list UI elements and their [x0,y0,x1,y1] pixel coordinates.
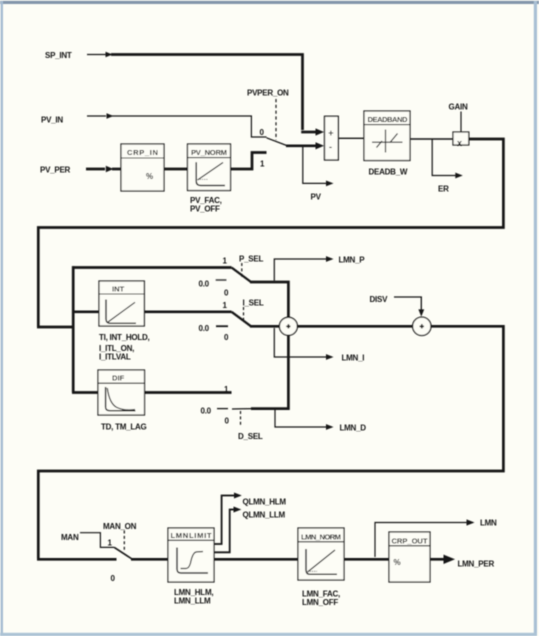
wire feedback join to trunk [37,326,73,329]
node LMN_D label [340,424,367,433]
graph INT ramp [108,302,135,322]
wire MAN_ON blade [114,547,132,559]
svg-text:QLMN_HLM: QLMN_HLM [243,498,287,507]
border frame right [534,1,537,636]
wire PVPER_ON dashed [275,99,277,140]
svg-text:0.0: 0.0 [201,407,212,416]
summer circle 2 [413,317,431,335]
svg-text:LMNLIMIT: LMNLIMIT [171,531,212,540]
svg-text:LMN_PER: LMN_PER [458,560,495,569]
wire GAIN down [460,112,462,133]
arrow into plus input [316,128,325,135]
wire MAN input [80,533,114,548]
wire I_SEL dashed [243,307,245,321]
svg-text:MAN: MAN [61,533,79,542]
node QLMN_HLM label [243,498,287,507]
svg-text:LMN_I: LMN_I [342,354,365,363]
svg-text:x: x [457,138,462,148]
wire circle2 out right down feedback to manual switch [38,326,503,558]
svg-text:DEADB_W: DEADB_W [369,168,408,177]
node PVPER_ON label [247,89,289,98]
svg-text:PV_IN: PV_IN [41,116,63,125]
node DISV label [370,295,389,304]
wire QLMN_LLM [214,510,235,553]
node PV_IN label [41,116,63,125]
graph PV_NORM axes [196,162,225,185]
svg-text:0.0: 0.0 [199,324,210,333]
svg-text:LMN: LMN [480,519,497,528]
graph LMN_NORM ramp [308,550,336,572]
wire switch out to minus bold [286,144,317,147]
wire SP_INT into plus [301,131,317,134]
arrow PV_PER [106,166,114,172]
wire QLMN_HLM [214,496,236,545]
graph LMNLIMIT curve [181,552,204,569]
svg-text:CRP_OUT: CRP_OUT [392,537,428,546]
block LMN_NORM [298,528,344,580]
arrow QLMN_LLM [234,507,242,513]
wire P out bold [250,282,288,318]
node LMN_P label [339,256,366,265]
wire DEADBAND to X box [410,138,453,140]
wire LMN_I takeoff [274,328,327,357]
wire PVPER switch blade [267,138,288,146]
border frame left [1,1,3,635]
node GAIN label [449,103,468,112]
wire D_SEL blade [232,408,252,410]
arrow ER [455,173,463,179]
block DEADBAND [364,111,410,161]
node LMN_OFF label [302,598,338,607]
wire D_SEL zero dash [217,408,228,410]
arrow QLMN_HLM [234,493,242,499]
wire PV_PER bold [86,168,105,171]
svg-text:+: + [328,128,333,138]
arrow PV_IN [107,113,114,118]
wire DISV [394,297,421,310]
svg-text:LMN_P: LMN_P [339,256,366,265]
wire P_SEL blade [232,268,252,283]
block LMNLIMIT [168,528,214,582]
wire LMNLIMIT to LMN_NORM [214,558,298,561]
wire PV_PER into CRP_IN [112,168,121,171]
wire summer out [338,137,364,139]
arrow PV [326,181,334,187]
svg-text:GAIN: GAIN [449,103,468,112]
node PV_OFF label [190,205,220,214]
node 1 label PVPER switch [260,160,265,169]
svg-text:%: % [394,558,401,567]
node QLMN_LLM label [243,511,286,520]
svg-text:D_SEL: D_SEL [238,432,263,441]
node MAN label [61,533,79,542]
wire D out bold and up to circle1 [251,335,288,409]
node TD TM_LAG label [101,423,147,432]
wire INT input [72,310,99,313]
svg-text:P_SEL: P_SEL [239,255,263,264]
svg-text:I_ITLVAL: I_ITLVAL [99,353,131,362]
svg-text:PV_PER: PV_PER [40,166,71,175]
node 0 label MAN_ON [111,574,116,583]
svg-text:PVPER_ON: PVPER_ON [247,89,289,98]
node I_SEL label [243,299,264,308]
block CRP_IN [121,144,164,191]
node D_SEL label [238,432,263,441]
wire auto path into MAN_ON 0 contact [37,558,117,561]
wire trunk vertical [72,266,75,392]
svg-text:DEADBAND: DEADBAND [368,115,409,124]
node PV label [311,193,322,202]
arrow LMN_D [326,424,334,430]
node 0 label I_SEL [224,333,229,342]
border frame bottom [0,633,537,636]
svg-text:0.0: 0.0 [199,280,210,289]
block CRP_OUT [389,532,430,582]
svg-text:DISV: DISV [370,295,389,304]
node LMN_I label [342,354,365,363]
svg-text:PV: PV [311,193,322,202]
wire CRP_OUT out bold [430,558,445,561]
node 0 label D_SEL [225,417,230,426]
arrow DISV down [418,309,424,316]
node P_SEL label [239,255,263,264]
node ER label [438,185,449,194]
wire LMN_NORM to CRP_OUT [344,558,389,561]
block summer rect [325,116,339,160]
node 0.0 label I_SEL [199,324,210,333]
block INT [99,281,144,326]
node PV_FAC label [190,196,222,205]
svg-text:TI, INT_HOLD,: TI, INT_HOLD, [99,333,150,342]
wire X box to right and down, feedback to left [38,139,503,327]
wire I_SEL zero dash [216,325,228,327]
node 1 label I_SEL [223,301,228,310]
graph DEADBAND curve [377,134,398,148]
node 0 label PVPER switch [260,128,265,137]
graph PV_NORM ramp [198,163,224,181]
wire CRP_IN to PV_NORM bold [164,168,188,171]
node LMN_HLM label [174,588,213,597]
graph LMN_NORM dotted [308,570,318,572]
arrow LMN [467,519,475,525]
node DEADB_W label [369,168,408,177]
wire INT out to I_SEL [144,310,231,313]
wire DIF input [72,391,98,394]
wire SP_INT input thin [87,54,106,56]
node I_ITLVAL label [99,353,131,362]
wire DIF out to D_SEL [145,391,232,394]
svg-text:PV_OFF: PV_OFF [190,205,220,214]
graph DIF decay [107,388,135,410]
wire P_SEL zero dash [216,279,227,281]
wire LMN_D takeoff [275,410,327,427]
arrow LMN_P [326,256,334,262]
node 1 label P_SEL [223,257,228,266]
svg-text:QLMN_LLM: QLMN_LLM [243,511,286,520]
wire I out bold [250,325,280,328]
node TI INT_HOLD label [99,333,150,342]
wire LMN_P takeoff [274,259,327,281]
wire SP_INT bold to corner and down to summer [111,55,303,131]
svg-text:INT: INT [112,285,125,294]
node 1 label D_SEL [224,385,229,394]
block PV_NORM [188,144,231,191]
graph DIF axes [106,387,136,411]
svg-text:I_SEL: I_SEL [243,299,264,308]
block gain X [453,132,469,145]
graph LMNLIMIT axes [177,548,208,574]
node LMN_PER label [458,560,495,569]
svg-text:TD, TM_LAG: TD, TM_LAG [101,423,147,432]
arrow SP_INT [106,52,113,57]
node 0.0 label P_SEL [199,280,210,289]
wire P branch [72,266,232,269]
wire ER takeoff [432,139,456,176]
node LMN_FAC label [302,590,340,599]
wire PV_IN to switch 0 contact [112,116,267,137]
wire P_SEL dashed [241,263,243,277]
wire circle1 to circle2 [297,325,413,328]
wire LMN takeoff [375,523,467,558]
node LMN label [480,519,497,528]
node 0 label P_SEL [224,289,229,298]
graph DEADBAND axes [372,141,403,143]
node 0.0 label D_SEL [201,407,212,416]
graph LMN_NORM axes [306,549,337,574]
summer circle 1 [279,317,297,335]
arrow LMN_PER big [444,555,456,564]
svg-text:LMN_OFF: LMN_OFF [302,598,338,607]
svg-text:-: - [329,142,332,152]
node SP_INT label [45,51,72,60]
graph INT axes [106,300,136,324]
svg-text:ER: ER [438,185,449,194]
wire D_SEL dashed [240,411,242,427]
wire MAN_ON out to LMNLIMIT [131,558,168,561]
wire PV_NORM out to switch 1 contact [231,153,267,170]
wire I_SEL blade [232,312,252,327]
svg-text:LMN_NORM: LMN_NORM [301,533,341,542]
graph PV_NORM dotted [198,178,208,180]
arrow into minus input [316,142,325,149]
border frame top [0,1,539,4]
svg-text:LMN_D: LMN_D [340,424,367,433]
svg-text:PV_NORM: PV_NORM [191,148,227,157]
svg-text:CRP_IN: CRP_IN [127,148,158,157]
wire PV takeoff [303,146,327,183]
wire MAN_ON dashed [123,531,125,551]
svg-text:SP_INT: SP_INT [45,51,72,60]
wire PV_IN thin [87,115,106,117]
svg-text:DIF: DIF [112,374,125,383]
svg-text:MAN_ON: MAN_ON [103,522,137,531]
node PV_PER label [40,166,71,175]
node I_ITL_ON label [99,344,134,353]
node 1 label MAN_ON [108,539,113,548]
arrow LMN_I [326,354,334,360]
node LMN_LLM label [174,597,211,606]
block DIF [98,370,145,415]
node MAN_ON label [103,522,137,531]
svg-text:LMN_LLM: LMN_LLM [174,597,211,606]
svg-text:%: % [146,172,153,181]
